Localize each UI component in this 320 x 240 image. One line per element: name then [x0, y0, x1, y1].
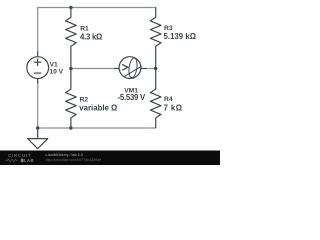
svg-text:LAB: LAB	[24, 158, 34, 163]
svg-text:-5.539 V: -5.539 V	[118, 93, 146, 102]
svg-text:variable Ω: variable Ω	[79, 104, 117, 113]
svg-text:10 V: 10 V	[49, 68, 63, 75]
svg-text:R3: R3	[164, 25, 173, 32]
svg-text:R4: R4	[164, 96, 173, 103]
svg-text:V1: V1	[50, 61, 58, 68]
svg-text:R1: R1	[80, 25, 89, 32]
svg-text:LiamMcNeely / lab 2-3: LiamMcNeely / lab 2-3	[46, 153, 83, 157]
svg-text:7 kΩ: 7 kΩ	[164, 104, 183, 113]
svg-text:5.139 kΩ: 5.139 kΩ	[164, 32, 197, 41]
svg-text:http://circuitlab.com/c5774b43: http://circuitlab.com/c5774b43694e	[46, 158, 102, 162]
svg-text:4.3 kΩ: 4.3 kΩ	[80, 32, 102, 41]
